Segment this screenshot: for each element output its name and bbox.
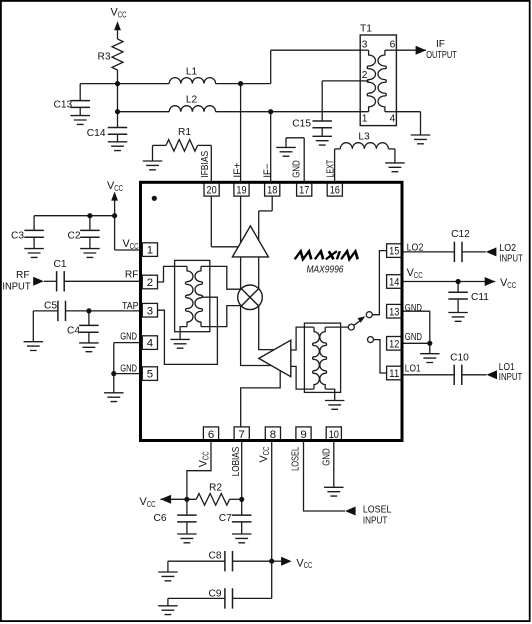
svg-text:TAP: TAP [122, 301, 139, 312]
svg-text:OUTPUT: OUTPUT [426, 50, 457, 61]
svg-text:12: 12 [389, 338, 399, 350]
svg-text:3: 3 [362, 39, 368, 50]
svg-text:14: 14 [389, 277, 399, 289]
svg-text:2: 2 [362, 70, 368, 81]
svg-text:15: 15 [389, 246, 399, 258]
svg-text:R3: R3 [97, 51, 110, 62]
svg-text:C1: C1 [53, 259, 66, 270]
svg-text:4: 4 [390, 113, 396, 124]
svg-text:C8: C8 [208, 550, 221, 561]
svg-text:GND: GND [120, 363, 137, 374]
svg-text:C15: C15 [292, 119, 311, 130]
svg-text:C6: C6 [153, 513, 166, 524]
svg-text:5: 5 [147, 369, 153, 381]
svg-text:T1: T1 [360, 24, 372, 35]
svg-text:LEXT: LEXT [326, 160, 337, 178]
svg-text:7: 7 [239, 429, 245, 441]
svg-text:INPUT: INPUT [499, 372, 523, 383]
svg-text:C9: C9 [208, 588, 221, 599]
svg-text:L2: L2 [186, 94, 198, 105]
svg-text:C5: C5 [44, 300, 57, 311]
svg-text:GND: GND [405, 332, 422, 343]
svg-text:L1: L1 [186, 66, 198, 77]
svg-text:8: 8 [270, 429, 276, 441]
svg-text:C10: C10 [450, 353, 469, 364]
svg-text:C7: C7 [219, 513, 232, 524]
svg-text:10: 10 [329, 429, 339, 441]
svg-text:LOSEL: LOSEL [363, 505, 392, 516]
svg-text:R1: R1 [178, 127, 191, 138]
svg-text:IF−: IF− [263, 164, 274, 178]
svg-text:C12: C12 [451, 229, 470, 240]
svg-text:1: 1 [362, 113, 368, 124]
svg-text:3: 3 [147, 305, 153, 317]
svg-text:LO1: LO1 [405, 364, 421, 375]
svg-text:C11: C11 [471, 292, 489, 303]
svg-text:GND: GND [120, 331, 137, 342]
svg-text:LO2: LO2 [407, 242, 424, 253]
svg-text:GND: GND [322, 448, 333, 466]
svg-text:6: 6 [390, 39, 396, 50]
svg-text:INPUT: INPUT [363, 516, 388, 527]
svg-text:INPUT: INPUT [499, 253, 523, 264]
svg-text:GND: GND [405, 303, 422, 314]
svg-text:C14: C14 [87, 128, 106, 139]
svg-text:LOSEL: LOSEL [290, 447, 301, 471]
svg-text:GND: GND [291, 160, 302, 178]
svg-text:C2: C2 [68, 231, 81, 242]
svg-text:9: 9 [300, 429, 306, 441]
svg-text:C3: C3 [11, 231, 24, 242]
svg-text:MAX9996: MAX9996 [307, 265, 344, 276]
svg-text:18: 18 [267, 184, 277, 196]
svg-text:RF: RF [125, 269, 139, 280]
svg-text:LOBIAS: LOBIAS [231, 447, 242, 477]
svg-text:IF: IF [436, 39, 445, 50]
svg-text:2: 2 [147, 277, 153, 289]
svg-text:1: 1 [147, 245, 153, 257]
svg-text:IF+: IF+ [232, 163, 243, 178]
svg-text:11: 11 [389, 368, 399, 380]
svg-text:19: 19 [236, 184, 246, 196]
svg-text:C4: C4 [67, 326, 80, 337]
svg-text:R2: R2 [209, 483, 222, 494]
svg-text:L3: L3 [358, 132, 370, 143]
svg-text:RF: RF [16, 270, 30, 281]
svg-text:4: 4 [147, 338, 153, 350]
svg-text:6: 6 [208, 429, 214, 441]
svg-text:C13: C13 [54, 100, 73, 111]
svg-text:20: 20 [207, 184, 217, 196]
svg-text:INPUT: INPUT [2, 281, 30, 292]
svg-text:13: 13 [389, 306, 399, 318]
svg-text:IFBIAS: IFBIAS [200, 151, 211, 178]
svg-text:16: 16 [330, 184, 340, 196]
svg-text:17: 17 [299, 184, 309, 196]
